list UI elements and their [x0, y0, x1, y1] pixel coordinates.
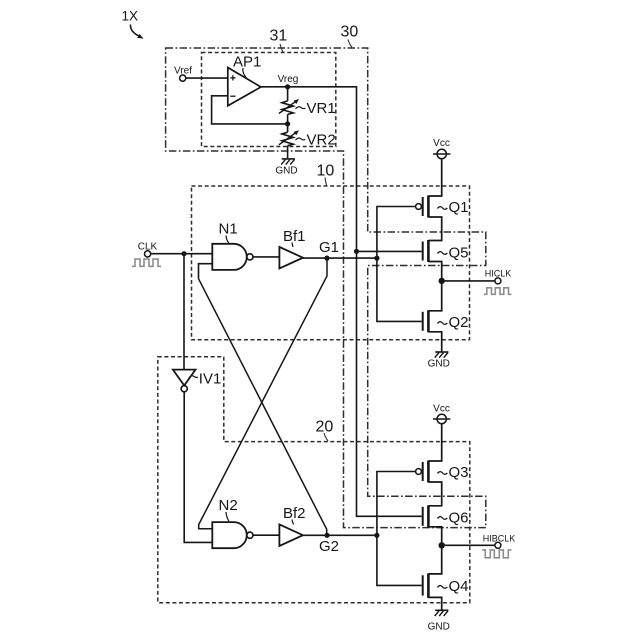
wire Q2 source to ground: [428, 332, 441, 352]
power Vcc (top): [433, 138, 450, 159]
node Vreg to Q5 gate branch: [354, 249, 359, 254]
wire gate bus Q1/Q2: [377, 207, 422, 322]
wire Vref to op-amp: [186, 77, 228, 79]
transistor Q5 (NMOS pass): [423, 240, 469, 262]
variable resistor VR2: [279, 130, 336, 148]
box 20 (dashed, second output stage block): [158, 357, 470, 603]
svg-text:GND: GND: [428, 359, 450, 370]
svg-text:GND: GND: [428, 622, 450, 633]
wire Q6 source to output node and Q4: [428, 527, 441, 574]
svg-text:HICLK: HICLK: [485, 268, 512, 278]
wire Q5 source to output node and Q2: [428, 262, 441, 311]
box 31 (dashed, regulator amp block): [202, 53, 336, 147]
inverter IV1: [173, 370, 221, 392]
svg-text:AP1: AP1: [233, 54, 261, 71]
transistor Q4 (NMOS): [423, 573, 469, 598]
svg-text:VR2: VR2: [307, 131, 336, 148]
node G2: [319, 533, 339, 555]
buffer Bf2: [279, 505, 305, 546]
wire Q1 drain to Q5: [428, 217, 441, 241]
wire cross-coupling N1 input to G2: [199, 279, 327, 536]
nand N1: [212, 221, 253, 270]
svg-text:IV1: IV1: [199, 371, 222, 388]
wire VR2 to ground: [287, 146, 289, 159]
wire VR1 to VR2: [287, 114, 289, 132]
waveform CLK: [132, 259, 161, 266]
wire IV1 output to N2 lower input: [184, 392, 212, 543]
wire feedback (op-amp minus input to VR1/VR2 tap): [212, 96, 288, 124]
buffer Bf1: [279, 228, 305, 269]
wire CLK node down to IV1: [183, 254, 185, 370]
waveform HICLK: [484, 288, 512, 295]
svg-text:N2: N2: [219, 497, 238, 514]
svg-text:Q5: Q5: [449, 244, 469, 261]
wire to HIBCLK terminal: [442, 544, 495, 546]
ground (regulator): [275, 159, 297, 177]
svg-text:10: 10: [317, 163, 335, 180]
wire Vreg output: [261, 87, 422, 517]
transistor Q6 (NMOS pass): [423, 505, 469, 527]
svg-text:Vreg: Vreg: [278, 74, 299, 85]
svg-text:G1: G1: [319, 239, 339, 256]
svg-text:30: 30: [341, 24, 359, 41]
label 31: [270, 28, 288, 53]
terminal CLK: [138, 241, 158, 257]
label 10: [317, 163, 335, 186]
nand N2: [212, 497, 253, 548]
wire Q3 drain to Q6: [428, 482, 441, 506]
node VR1/VR2 tap: [285, 121, 290, 126]
node gate-bus junction (Q1/Q2): [374, 256, 379, 261]
transistor Q2 (NMOS): [423, 310, 469, 332]
ground (below Q2): [428, 352, 450, 370]
node G1: [319, 239, 339, 261]
wire Bf1 output to gate bus: [303, 257, 377, 259]
label 20: [316, 419, 334, 442]
box 30 (dash-dot regulation circuit outline incl. Q5/Q6 enclosures): [166, 48, 486, 528]
waveform HIBCLK: [482, 550, 511, 558]
wire Bf2 output to gate bus: [303, 534, 377, 536]
node HIBCLK output: [439, 542, 445, 548]
label 30: [341, 24, 359, 48]
wire CLK to N1: [151, 253, 213, 255]
wire N1 to Bf1: [253, 256, 279, 258]
svg-text:1X: 1X: [122, 9, 139, 24]
variable resistor VR1: [279, 99, 336, 117]
svg-text:Bf1: Bf1: [283, 228, 306, 245]
svg-text:Q4: Q4: [449, 578, 469, 595]
svg-text:VR1: VR1: [307, 100, 336, 117]
op-amp AP1: [228, 54, 262, 106]
wire Vcc to Q1: [428, 159, 441, 196]
svg-text:Q3: Q3: [449, 464, 469, 481]
wire Vreg branch to Q5 gate: [357, 250, 422, 252]
svg-text:Q2: Q2: [449, 314, 469, 331]
terminal HICLK: [485, 268, 512, 284]
svg-text:Q6: Q6: [449, 509, 469, 526]
svg-text:Vcc: Vcc: [433, 403, 450, 414]
wire gate bus Q3/Q4: [377, 472, 422, 586]
wire cross-coupling G1 to N2 input: [199, 258, 327, 529]
box 10 (dashed, first output stage block): [192, 186, 470, 340]
node CLK branch: [181, 251, 186, 256]
wire Q4 source to ground: [428, 597, 441, 610]
svg-text:Vcc: Vcc: [433, 138, 450, 149]
ground (below Q4): [428, 610, 450, 632]
terminal Vref: [174, 66, 192, 82]
node HICLK output: [439, 278, 445, 284]
wire N2 to Bf2: [253, 534, 279, 536]
transistor Q3 (PMOS): [416, 461, 469, 483]
wire N1 lower input (from G2 via cross-coupling): [199, 264, 213, 279]
wire Vcc to Q3: [428, 424, 441, 461]
svg-text:G2: G2: [319, 538, 339, 555]
terminal HIBCLK: [483, 533, 516, 548]
wire to HICLK terminal: [442, 280, 495, 282]
transistor Q1 (PMOS): [416, 196, 469, 218]
svg-text:N1: N1: [219, 221, 238, 238]
label 1X: [122, 9, 144, 39]
power Vcc (bottom): [433, 403, 450, 423]
wire Vreg node down to VR1: [287, 87, 289, 101]
svg-text:Q1: Q1: [449, 199, 469, 216]
svg-text:Bf2: Bf2: [283, 505, 306, 522]
node Vreg: [278, 74, 299, 90]
node gate-bus junction (Q3/Q4): [374, 533, 379, 538]
svg-text:31: 31: [270, 28, 288, 45]
svg-text:GND: GND: [275, 166, 297, 177]
